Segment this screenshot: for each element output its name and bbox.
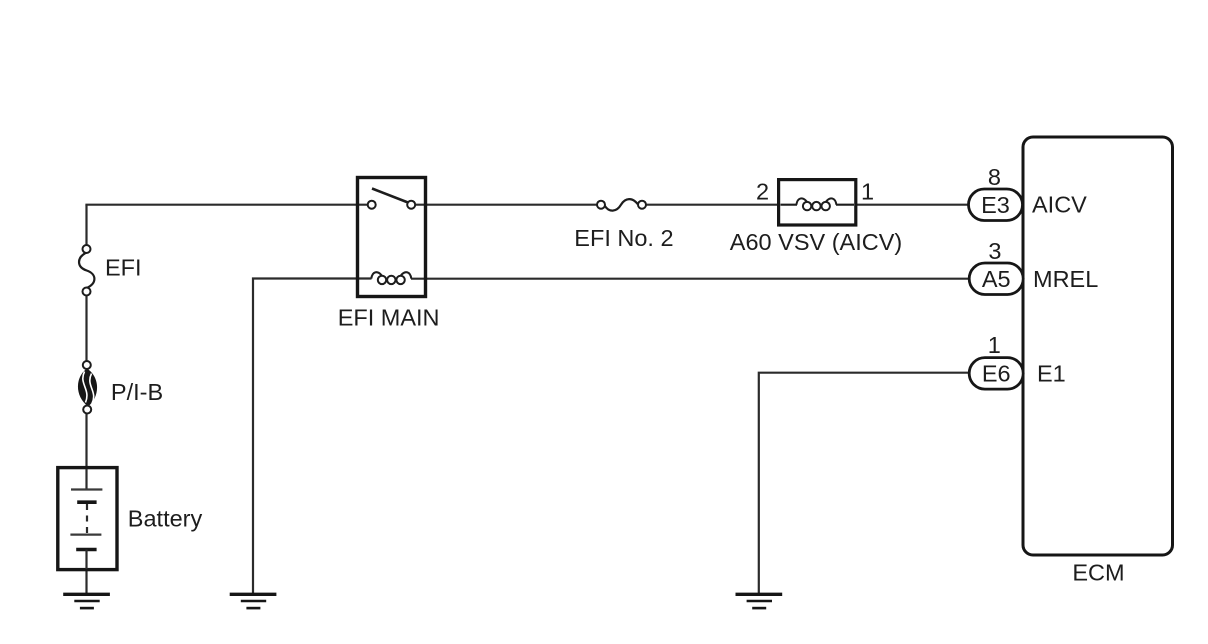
VSV coil [781,198,855,210]
svg-text:A5: A5 [982,266,1011,292]
pin E6 connector [969,358,1023,390]
relay EFI MAIN box [358,178,426,297]
wire battery negative to ground G1 [85,550,87,595]
wire EFI No.2 fuse to VSV terminal 2 [642,204,797,206]
wire top feed to EFI MAIN relay switch [85,204,371,206]
ECM box [1023,137,1173,555]
svg-text:EFI: EFI [105,255,142,281]
ground G3 (ECM E1) [736,594,783,608]
svg-text:EFI No. 2: EFI No. 2 [574,225,673,251]
ground G1 (battery) [63,594,110,608]
svg-text:ECM: ECM [1072,560,1124,586]
wire relay coil to ground G2 [253,279,372,594]
svg-text:8: 8 [988,164,1001,190]
svg-text:EFI MAIN: EFI MAIN [338,305,440,331]
wire relay switch output to EFI No.2 fuse [411,204,601,206]
pin A5 connector [969,263,1023,295]
fusible link P/I-B [78,361,97,414]
svg-text:1: 1 [988,332,1001,358]
svg-text:E6: E6 [982,361,1011,387]
pin E3 connector [969,189,1023,221]
wire relay coil to ECM pin A5 (MREL net) [411,278,971,280]
relay switch contact [368,189,416,209]
VSV A60 (AICV) box [779,180,856,225]
svg-text:AICV: AICV [1032,192,1087,218]
svg-text:1: 1 [861,178,874,204]
wire ECM pin E6 to ground G3 (E1 net) [759,373,971,593]
fuse EFI [79,245,94,296]
svg-text:A60 VSV (AICV): A60 VSV (AICV) [730,229,902,255]
svg-text:2: 2 [756,178,769,204]
wire battery positive riser (node B+ to EFI fuse) [85,205,87,490]
svg-text:E3: E3 [981,192,1010,218]
svg-text:P/I-B: P/I-B [111,379,163,405]
relay coil [371,272,411,284]
battery [58,468,117,570]
ground G2 (relay coil) [230,594,277,608]
wire VSV terminal 1 to ECM pin E3 [836,204,970,206]
svg-text:MREL: MREL [1033,266,1098,292]
svg-text:E1: E1 [1037,360,1066,386]
fuse EFI No. 2 [597,199,646,211]
svg-text:Battery: Battery [128,505,203,531]
svg-text:3: 3 [988,238,1001,264]
